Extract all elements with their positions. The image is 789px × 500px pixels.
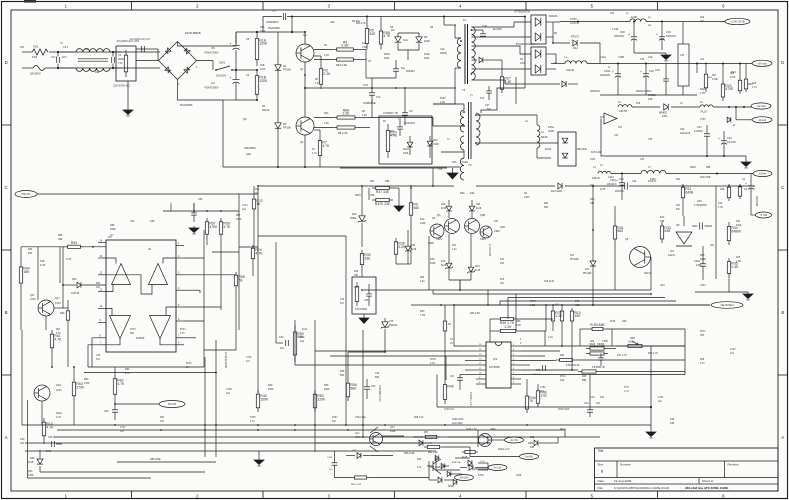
YEL/5VSB-2 oval [711, 302, 743, 309]
voltage selector switch SW1 [215, 69, 217, 71]
svg-text:230-cfull line ATX 230W..CADE: 230-cfull line ATX 230W..CADE [685, 486, 728, 490]
fourth driver transistor Q8 [480, 226, 492, 238]
svg-text:Q2B: Q2B [500, 226, 505, 229]
svg-text:4.7K: 4.7K [117, 382, 125, 386]
junction dots on buses [114, 424, 116, 426]
vertical into R43 [444, 305, 446, 318]
svg-text:D20: D20 [411, 245, 416, 247]
series snubber cap C6 on top bus [263, 16, 282, 18]
svg-text:D16: D16 [430, 258, 435, 261]
svg-text:R63: R63 [84, 378, 89, 381]
svg-text:A4.5A 6F03/06: A4.5A 6F03/06 [224, 352, 227, 368]
svg-text:D34 4148: D34 4148 [430, 466, 441, 469]
svg-text:2.2K: 2.2K [323, 72, 331, 76]
svg-text:IC2: IC2 [618, 125, 623, 129]
wires from KA7500 left to LM339 right [212, 251, 239, 253]
svg-text:1.7B: 1.7B [420, 314, 425, 317]
svg-text:R8 2.2R: R8 2.2R [338, 131, 348, 135]
svg-text:D13: D13 [420, 218, 425, 221]
wire y478 bottom-left [28, 477, 152, 479]
resistor R6 at Q1 emitter [320, 64, 322, 69]
+12V output oval [751, 103, 771, 109]
svg-text:560: 560 [617, 229, 623, 233]
svg-text:R43: R43 [420, 310, 425, 313]
resistor R45 27R [537, 387, 539, 391]
svg-text:C33: C33 [648, 139, 653, 141]
resistor R65 bottom [424, 446, 427, 448]
svg-text:C945: C945 [494, 230, 500, 233]
svg-text:2.4E: 2.4E [504, 80, 512, 84]
svg-text:501: 501 [487, 108, 492, 111]
svg-text:IC41: IC41 [302, 328, 308, 331]
svg-text:R32A 50B: R32A 50B [700, 176, 711, 179]
svg-text:R?14: R?14 [560, 376, 566, 378]
svg-text:33E: 33E [590, 202, 595, 205]
X capacitor C2 [111, 57, 113, 63]
svg-text:R30: R30 [354, 271, 359, 273]
svg-text:R4A: R4A [362, 42, 367, 45]
svg-text:R31: R31 [544, 202, 549, 205]
resistor R57 470K [206, 218, 208, 222]
svg-text:C19: C19 [648, 56, 653, 59]
svg-text:R43: R43 [560, 355, 565, 357]
misc long verticals center [345, 236, 347, 325]
svg-text:4.7K: 4.7K [56, 333, 61, 335]
svg-text:C20A: C20A [700, 284, 706, 287]
wires connecting IC3 area down [436, 375, 438, 408]
svg-text:7A: 7A [118, 53, 121, 57]
svg-text:C24: C24 [680, 128, 685, 131]
svg-text:Q5: Q5 [676, 223, 680, 227]
svg-text:R54: R54 [71, 241, 77, 245]
svg-text:4.7K: 4.7K [312, 153, 317, 155]
svg-text:6480K: 6480K [731, 230, 742, 234]
svg-text:220K: 220K [324, 388, 330, 391]
resistor R59 7B right of box [235, 272, 237, 275]
bundle step wire 2 [508, 298, 665, 320]
wire Q1 emitter to Q2 collector [304, 62, 306, 117]
input filter box with varistor [116, 46, 136, 81]
svg-text:100u/1A5: 100u/1A5 [680, 132, 691, 135]
cap C44 [364, 386, 370, 388]
5VSB output diode D14 [476, 142, 558, 144]
cap C31A [619, 182, 625, 184]
LM339 left pin stubs [98, 242, 106, 244]
svg-text:4.7K: 4.7K [624, 391, 629, 393]
svg-text:R41: R41 [590, 340, 595, 343]
svg-text:2200/10V: 2200/10V [590, 90, 601, 93]
svg-text:C9: C9 [409, 109, 413, 113]
svg-text:D2B: D2B [40, 261, 45, 263]
-5V output oval [753, 170, 772, 176]
resistor R43 2.2K top of IC [496, 330, 500, 332]
svg-text:10K: 10K [500, 283, 505, 285]
resistor R62 4.7K [114, 374, 116, 379]
svg-text:R15: R15 [500, 279, 505, 281]
switch transistor Q1 2SC5027 [296, 44, 314, 62]
svg-text:4148: 4148 [441, 208, 447, 210]
svg-text:R1B: R1B [260, 65, 265, 67]
transistor Q10 bottom [370, 433, 383, 446]
5VSB reg resistor R41 [682, 201, 684, 216]
svg-text:470E: 470E [712, 78, 718, 81]
bundle step wire 1 [516, 294, 651, 331]
svg-text:A?R14A: A?R14A [452, 461, 461, 464]
svg-text:C45: C45 [198, 198, 203, 201]
long vertical rails mid-left [238, 194, 240, 330]
svg-text:1.2K: 1.2K [555, 314, 563, 318]
right-edge rails [684, 329, 686, 375]
svg-text:R6?: R6? [424, 432, 429, 434]
svg-text:File:: File: [598, 486, 604, 490]
svg-text:22R-30: 22R-30 [592, 177, 601, 180]
svg-text:C31: C31 [640, 159, 645, 161]
svg-text:565: 565 [375, 376, 380, 379]
svg-text:R62 2.2K: R62 2.2K [428, 452, 438, 454]
svg-text:R60L 5.6K: R60L 5.6K [351, 484, 362, 486]
svg-text:C945: C945 [524, 197, 530, 199]
svg-text:F39k: F39k [696, 264, 702, 267]
svg-text:R64: R64 [160, 417, 165, 419]
svg-text:CX.1: CX.1 [63, 46, 69, 49]
resistor R72 above IC3 [571, 308, 573, 311]
svg-text:P10A: P10A [424, 53, 430, 56]
svg-text:R35: R35 [736, 257, 741, 259]
svg-text:31E: 31E [369, 32, 376, 36]
svg-text:K148: K148 [433, 143, 439, 146]
svg-text:T2: T2 [468, 163, 472, 167]
svg-text:6146: 6146 [384, 57, 390, 60]
svg-text:D30: D30 [72, 278, 77, 281]
bulk cap C3 470uF/200V [235, 69, 237, 71]
svg-text:C40: C40 [20, 438, 25, 441]
svg-text:2SD2553: 2SD2553 [244, 146, 256, 150]
svg-text:10E: 10E [700, 21, 705, 23]
comparator D triangle [150, 316, 171, 339]
svg-text:4148: 4148 [475, 270, 481, 272]
svg-text:F62/50v: F62/50v [533, 374, 542, 376]
svg-text:C?48: C?48 [226, 388, 232, 391]
svg-text:R40: R40 [268, 384, 273, 387]
standby transformer T2 [460, 110, 464, 132]
diode D1 FR106 at Q1 base [277, 32, 279, 62]
svg-text:10K: 10K [160, 421, 165, 423]
ground under C36 box [363, 314, 365, 318]
svg-text:2.1K: 2.1K [548, 336, 553, 339]
T1 primary bottom to return [433, 103, 456, 105]
svg-text:7K: 7K [529, 399, 534, 403]
svg-text:C?4A 10a: C?4A 10a [355, 416, 366, 419]
svg-text:27R: 27R [540, 394, 547, 398]
svg-text:D: D [5, 60, 8, 65]
svg-text:ACX(230V-AC) 473: ACX(230V-AC) 473 [130, 38, 151, 41]
svg-text:10R-50: 10R-50 [566, 69, 575, 72]
svg-text:61AB: 61AB [548, 130, 554, 133]
svg-text:R65 220E: R65 220E [150, 458, 161, 461]
svg-text:C32: C32 [697, 126, 702, 129]
svg-text:X01: X01 [33, 45, 39, 49]
svg-text:C945: C945 [436, 238, 442, 241]
snubber cap in box [397, 126, 403, 128]
wire bridge+ top rail [178, 42, 215, 47]
svg-text:1N4148: 1N4148 [71, 293, 80, 295]
svg-text:MON-BR08: MON-BR08 [180, 104, 193, 107]
zener under Q3 [446, 263, 452, 268]
wires driver area [361, 186, 363, 200]
svg-text:A+3.3V: A+3.3V [494, 467, 502, 470]
svg-text:4.7K: 4.7K [66, 257, 72, 261]
svg-text:R55: R55 [58, 234, 63, 237]
svg-text:4.7K: 4.7K [125, 372, 130, 375]
wire top bus down to T1 via snubber [524, 16, 526, 18]
cap C32 1u/50v [704, 133, 710, 135]
pack outputs right [546, 21, 553, 23]
svg-text:C31A: C31A [608, 176, 614, 179]
svg-text:R60: R60 [60, 312, 65, 315]
svg-text:2.2R: 2.2R [324, 55, 329, 57]
svg-text:Q2B: Q2B [480, 214, 485, 217]
svg-text:4148: 4148 [411, 249, 417, 251]
svg-text:33E: 33E [58, 238, 63, 241]
svg-text:R41 740B: R41 740B [589, 343, 605, 347]
diode D11 above Q4 [469, 206, 475, 211]
diode D10 in box [427, 141, 433, 146]
svg-text:R11: R11 [676, 178, 681, 181]
svg-text:2.4E: 2.4E [440, 101, 445, 104]
zener column wires [455, 457, 470, 459]
svg-text:R25: R25 [752, 83, 757, 85]
T1 secondary taps to packs [472, 22, 532, 27]
PS-ON wire [115, 403, 159, 405]
resistor R04 15K left [20, 262, 22, 267]
svg-text:D1: D1 [283, 64, 287, 68]
svg-text:1N4147/06: 1N4147/06 [452, 419, 464, 421]
bottom middle transistor [479, 434, 492, 447]
cap C45 and ground [191, 212, 197, 214]
diode D20 [405, 246, 411, 251]
svg-text:Revision: Revision [728, 463, 740, 467]
svg-text:C45: C45 [150, 220, 155, 223]
svg-text:120K: 120K [260, 31, 266, 33]
svg-text:C43: C43 [279, 336, 284, 339]
wires bottom-left [41, 401, 43, 425]
PS-ON oval [159, 401, 185, 408]
svg-text:C47: C47 [450, 376, 455, 378]
LM339 top-left feed resistor R54 [64, 246, 68, 248]
svg-text:Q18: Q18 [56, 384, 61, 387]
svg-text:470E: 470E [725, 87, 734, 91]
svg-text:T25: T25 [389, 320, 394, 323]
svg-text:R?66: R?66 [250, 417, 256, 419]
tall resistor R50 [294, 325, 296, 332]
resistor R48 on wire [556, 359, 560, 361]
ground mid [393, 187, 399, 189]
svg-text:A733: A733 [56, 389, 62, 392]
svg-text:R62: R62 [125, 368, 130, 371]
svg-text:D19 4148: D19 4148 [544, 281, 555, 283]
svg-text:D15 4148: D15 4148 [591, 151, 602, 154]
svg-text:470K: 470K [236, 218, 242, 221]
IC3 right side wires [521, 345, 685, 347]
diode D27 [419, 440, 423, 446]
svg-text:R42: R42 [255, 189, 260, 191]
box outline right of IC3 [611, 329, 613, 346]
svg-text:2200/600V: 2200/600V [404, 123, 416, 125]
ground arrow under T2 [447, 173, 458, 179]
svg-text:270K: 270K [76, 385, 85, 389]
svg-text:YEL/5VSB-2: YEL/5VSB-2 [720, 304, 734, 307]
wire lm339 bottom to buses [88, 366, 204, 368]
resistor R7 at Q2 emitter [319, 136, 321, 141]
svg-text:A5E: A5E [575, 304, 580, 307]
svg-text:R49: R49 [447, 384, 453, 388]
bundle step wire 3 [500, 301, 676, 305]
resistor R37 33E [372, 187, 376, 189]
cap C30 5VSB [624, 183, 626, 190]
svg-text:C?51: C?51 [658, 397, 664, 399]
primary return rail bottom [223, 166, 460, 168]
svg-text:250V: 250V [118, 57, 124, 61]
svg-text:4302: 4302 [662, 115, 668, 118]
svg-text:2.2E: 2.2E [343, 112, 351, 116]
resistor R60 [67, 308, 69, 311]
5VSB ground bus [728, 277, 730, 292]
resistor R11 640B [682, 184, 684, 187]
svg-text:C23: C23 [610, 13, 615, 15]
svg-text:C?46: C?46 [246, 357, 252, 359]
svg-text:R19A 1.2V: R19A 1.2V [498, 448, 510, 451]
svg-text:B: B [5, 310, 8, 315]
pack output wires [552, 22, 554, 43]
svg-text:PS-ON: PS-ON [168, 402, 176, 406]
svg-text:D26 4148: D26 4148 [404, 452, 415, 455]
diode D26b [357, 453, 361, 459]
svg-text:C31A: C31A [610, 179, 616, 182]
svg-text:1K: 1K [256, 202, 261, 206]
transistor Q5 A5213 [630, 247, 651, 268]
svg-text:SW1: SW1 [219, 61, 226, 65]
svg-text:R?45: R?45 [430, 358, 436, 361]
svg-text:560: 560 [544, 206, 549, 209]
svg-text:C26: C26 [697, 200, 702, 203]
svg-text:C41: C41 [48, 436, 53, 439]
svg-text:D16: D16 [441, 260, 446, 263]
svg-text:103: 103 [596, 402, 601, 405]
transistor Q17 A733 [38, 300, 54, 316]
svg-text:C29: C29 [660, 39, 665, 41]
svg-text:D15: D15 [438, 169, 443, 171]
svg-text:10K: 10K [96, 287, 101, 289]
svg-text:C:\QOOKS.MB\TSCAD02DA-3.2W/E-O: C:\QOOKS.MB\TSCAD02DA-3.2W/E-OCAD [614, 486, 669, 490]
svg-text:4.7K: 4.7K [430, 362, 435, 365]
svg-text:102: 102 [480, 97, 485, 100]
cap C50 [598, 357, 604, 359]
svg-text:Ka431: Ka431 [668, 254, 676, 257]
svg-text:10u/16V: 10u/16V [727, 141, 736, 144]
bottom long bus wires [39, 424, 651, 426]
svg-text:104: 104 [226, 392, 231, 395]
svg-text:R?72: R?72 [700, 331, 706, 333]
capacitor C40 psu [112, 409, 118, 411]
secondary rectifier pack lower [531, 47, 546, 75]
svg-text:3900F: 3900F [440, 52, 447, 55]
svg-text:A5K: A5K [700, 334, 705, 337]
svg-text:2200/10: 2200/10 [615, 190, 624, 193]
Y capacitor [136, 48, 152, 50]
cap near TL431 [699, 223, 701, 230]
svg-text:1.2B: 1.2B [530, 304, 535, 307]
svg-text:C44: C44 [371, 385, 376, 388]
svg-text:56K: 56K [340, 374, 345, 377]
startup resistor R5A [380, 27, 382, 31]
svg-text:2200/16V: 2200/16V [614, 35, 625, 38]
svg-text:R19: R19 [700, 17, 705, 19]
svg-text:603004: 603004 [406, 69, 415, 73]
svg-text:C?50: C?50 [540, 387, 546, 389]
svg-text:2.4E: 2.4E [736, 261, 741, 263]
svg-text:SBL2040: SBL2040 [577, 148, 588, 151]
svg-text:4.7E: 4.7E [383, 34, 391, 38]
svg-text:R66: R66 [110, 224, 115, 227]
svg-text:4.7K: 4.7K [56, 416, 61, 419]
svg-text:A5K: A5K [622, 320, 627, 323]
resistor long 6.8 on wire 371 [578, 371, 582, 373]
svg-text:470K: 470K [209, 225, 218, 229]
snubber box C36 [352, 277, 376, 314]
svg-text:PW-OK: PW-OK [22, 192, 31, 196]
svg-text:740B: 740B [602, 340, 608, 343]
base resistors R4 R4A for Q1 [332, 49, 337, 51]
svg-text:4.7K: 4.7K [322, 144, 330, 148]
svg-text:K14: K14 [403, 38, 408, 42]
svg-text:C30: C30 [632, 181, 637, 183]
svg-text:6146: 6146 [441, 265, 447, 267]
svg-text:MR852: MR852 [648, 94, 656, 97]
svg-text:C20: C20 [482, 24, 487, 28]
svg-text:2.2K: 2.2K [452, 249, 457, 251]
svg-text:CA1: CA1 [590, 396, 595, 399]
svg-text:FR106: FR106 [283, 68, 291, 72]
svg-text:6.8/35M1.39: 6.8/35M1.39 [592, 367, 605, 369]
wires right of LM339 [184, 257, 204, 259]
svg-text:33E: 33E [354, 275, 359, 277]
LM339 right pin stubs [176, 244, 184, 246]
driver stage transistor Q3 [445, 219, 460, 234]
secondary rectifier pack STPS3045 upper [531, 15, 546, 44]
svg-text:R-50: R-50 [610, 320, 616, 323]
resistor R71 above IC3 [561, 308, 563, 311]
cap C20A [700, 263, 706, 265]
svg-text:SURFACE: SURFACE [363, 101, 376, 105]
wire AC to bridge [136, 60, 159, 62]
svg-text:T1: T1 [462, 88, 466, 92]
cap C41 [51, 441, 53, 447]
transistor T-bottom third [427, 459, 441, 474]
svg-text:C33: C33 [727, 137, 732, 140]
ecap A+ on right [748, 185, 754, 187]
svg-text:R?34: R?34 [180, 329, 186, 331]
svg-text:470E: 470E [730, 77, 736, 79]
svg-text:2.2K: 2.2K [516, 324, 521, 327]
svg-text:R?70: R?70 [530, 300, 536, 303]
resistor R33 [661, 222, 663, 226]
svg-text:R41: R41 [676, 205, 681, 207]
svg-text:D14 4148: D14 4148 [551, 190, 562, 193]
svg-text:6.TS/P1003: 6.TS/P1003 [488, 244, 490, 257]
resistor R27 [501, 73, 503, 77]
resistor R56 56K [347, 379, 349, 383]
svg-text:D15: D15 [452, 161, 457, 164]
